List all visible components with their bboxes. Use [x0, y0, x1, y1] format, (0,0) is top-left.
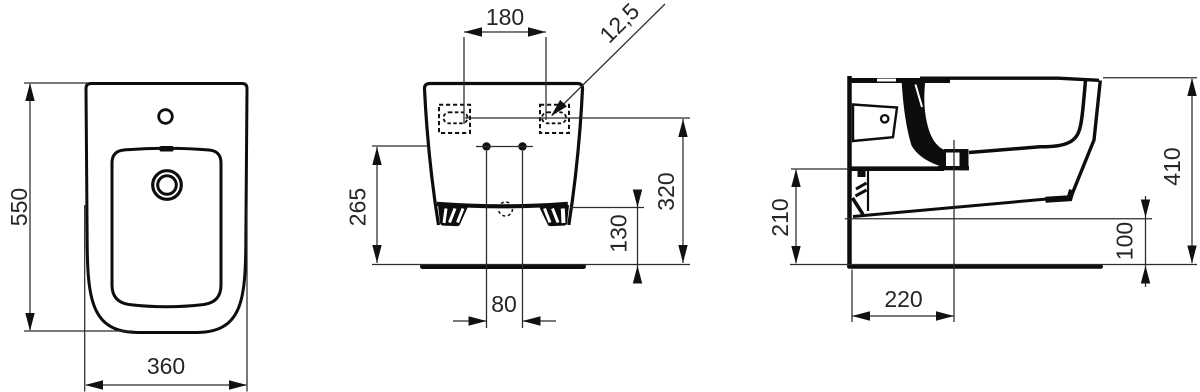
svg-text:320: 320 — [653, 172, 679, 210]
svg-text:100: 100 — [1112, 222, 1138, 260]
svg-text:410: 410 — [1159, 147, 1185, 185]
svg-text:360: 360 — [147, 353, 185, 379]
svg-text:550: 550 — [6, 188, 32, 226]
svg-text:210: 210 — [767, 198, 793, 236]
svg-text:220: 220 — [884, 286, 922, 312]
svg-text:180: 180 — [486, 4, 524, 30]
svg-text:130: 130 — [606, 214, 632, 252]
svg-text:80: 80 — [491, 291, 517, 317]
svg-text:265: 265 — [345, 188, 371, 226]
